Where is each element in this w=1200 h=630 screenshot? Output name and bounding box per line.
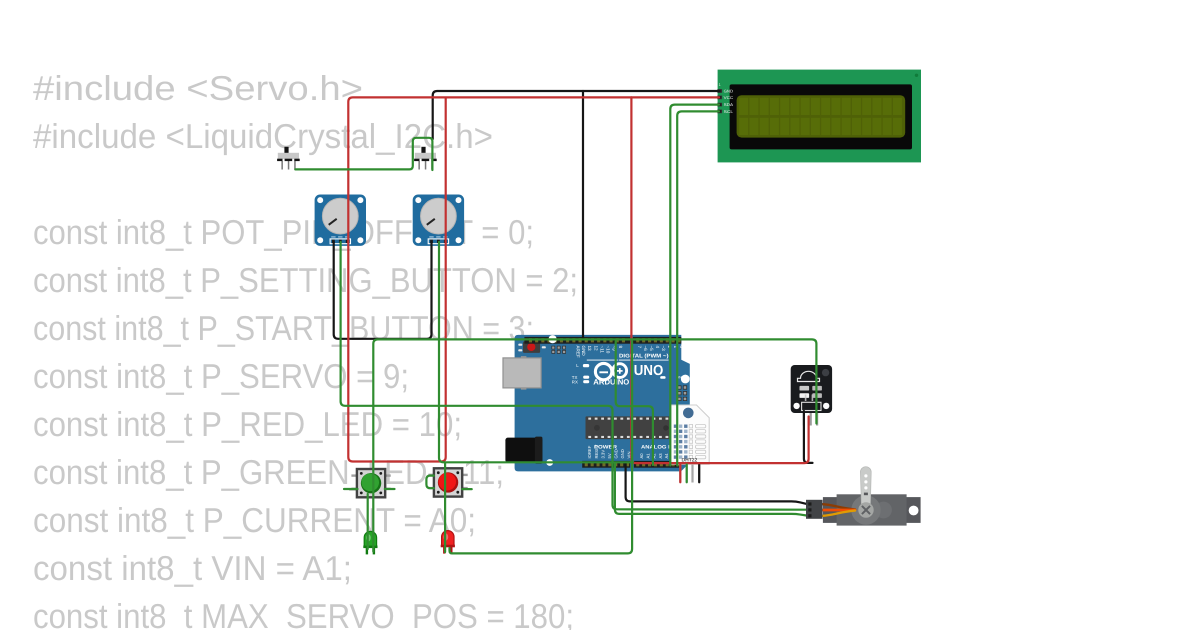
wire: red button to red LED [444, 463, 446, 552]
wire: POT2 signal to A0 [439, 242, 633, 462]
svg-text:SCL: SCL [724, 109, 734, 114]
LCD1602 display module [718, 70, 921, 163]
sensor breakout module [791, 365, 832, 426]
svg-text:A1: A1 [645, 453, 650, 459]
svg-text:~10: ~10 [606, 346, 611, 354]
svg-text:UNO: UNO [634, 363, 664, 379]
power barrel jack [505, 438, 542, 463]
LCD screen [737, 95, 906, 137]
svg-text:const int8_t MAX_SERVO_POS = 1: const int8_t MAX_SERVO_POS = 180; [33, 598, 574, 630]
red LED [441, 531, 455, 554]
servo horn [860, 467, 871, 504]
wire GND: sensor module [804, 411, 813, 463]
green LED [363, 531, 377, 554]
wire: header to servo pin3 [615, 463, 807, 516]
svg-text:12: 12 [593, 346, 598, 352]
svg-text:const int8_t P_START_BUTTON =: const int8_t P_START_BUTTON = 3; [33, 310, 534, 348]
LCD pins GND VCC SDA SCL [718, 83, 734, 114]
ICSP header 2 [678, 386, 687, 401]
svg-text:ARDUINO: ARDUINO [593, 378, 629, 387]
svg-text:A0: A0 [639, 453, 644, 459]
svg-text:VCC: VCC [724, 95, 734, 100]
svg-text:POWER: POWER [594, 445, 617, 451]
svg-text:const int8_t P_RED_LED = 10;: const int8_t P_RED_LED = 10; [33, 406, 462, 444]
svg-text:GND: GND [581, 346, 586, 357]
svg-text:IOREF: IOREF [587, 445, 592, 458]
ICSP header (USB side) [552, 346, 566, 353]
svg-text:SDA: SDA [724, 102, 734, 107]
wire SDA: LCD to A4 [670, 105, 719, 466]
svg-text:3.3V: 3.3V [601, 450, 606, 459]
svg-text:const int8_t P_CURRENT = A0;: const int8_t P_CURRENT = A0; [33, 502, 476, 540]
svg-text:8: 8 [618, 346, 623, 349]
svg-text:#include <Servo.h>: #include <Servo.h> [33, 70, 363, 108]
svg-text:~3: ~3 [661, 346, 666, 352]
red pushbutton [428, 468, 467, 496]
faded background source code [33, 70, 578, 630]
svg-text:~5: ~5 [649, 346, 654, 352]
wire stub: green button right [385, 488, 395, 490]
servo screw [858, 502, 873, 517]
svg-text:4: 4 [655, 346, 660, 349]
potentiometer POT2 [413, 195, 464, 246]
wire GND: LCD to slide switch SW2 [433, 91, 719, 139]
svg-text:A3: A3 [658, 453, 663, 459]
wire SCL: LCD to A5 [677, 111, 719, 465]
wire: POT1 signal to servo row [341, 242, 807, 510]
pot knob [421, 198, 457, 234]
wire: SW1 to SW2 [295, 138, 432, 170]
wire GND: POT1 pin1 to POT2 pin1 [334, 242, 432, 339]
Arduino Uno board [503, 335, 690, 472]
wire GND: Arduino to servo connector [626, 463, 807, 504]
wire stub: red button right [462, 488, 472, 490]
reset button [523, 341, 540, 353]
svg-text:GND: GND [724, 89, 734, 94]
svg-text:A4: A4 [664, 453, 669, 459]
wire stub: green button left [344, 488, 358, 490]
wire VCC: 5V rail to DHT/module [631, 97, 808, 463]
svg-text:RX: RX [572, 380, 578, 385]
potentiometer POT1 [315, 195, 366, 246]
svg-text:DIGITAL (PWM ~): DIGITAL (PWM ~) [619, 354, 669, 360]
svg-text:const int8_t P_SETTING_BUTTON: const int8_t P_SETTING_BUTTON = 2; [33, 262, 578, 300]
slide switch SW1 [277, 147, 300, 170]
wire: module SIG / pin2 / green button / LED [373, 339, 816, 551]
svg-text:7: 7 [637, 346, 642, 349]
svg-text:13: 13 [587, 346, 592, 352]
svg-text:5V: 5V [607, 453, 612, 458]
green pushbutton [351, 469, 390, 497]
servo motor [823, 467, 921, 526]
wire VCC: DHT22 pin1 drop [679, 463, 681, 482]
svg-text:const int8_t VIN = A1;: const int8_t VIN = A1; [33, 550, 352, 588]
servo wire fan [823, 504, 856, 516]
LCD bezel [730, 84, 912, 149]
wire VCC: LCD / POT1 / POT2 loop [348, 97, 719, 461]
svg-text:~11: ~11 [599, 346, 604, 354]
slide switch SW2 [414, 147, 437, 170]
ATmega328 chip [586, 416, 671, 439]
DHT22 sensor [671, 405, 709, 483]
svg-text:1: 1 [719, 83, 721, 87]
USB connector [521, 356, 527, 389]
wire: DHT22 data stub [686, 465, 688, 483]
wire GND: DHT22 pin4 [698, 465, 700, 483]
power/analog pin headers [582, 461, 630, 468]
svg-text:~6: ~6 [643, 346, 648, 352]
wire: red button left loop [426, 476, 434, 489]
wire GND: junction to Arduino GND (top header) [582, 91, 584, 341]
pot knob [322, 198, 358, 234]
Arduino logo [595, 363, 626, 379]
digital pin headers [524, 337, 630, 344]
wire: pin9 loop to analog header [616, 342, 653, 466]
mounting holes [681, 375, 690, 384]
svg-text:AREF: AREF [575, 346, 580, 358]
wire: green button to green LED [367, 494, 369, 549]
svg-text:const int8_t P_SERVO = 9;: const int8_t P_SERVO = 9; [33, 358, 409, 396]
svg-text:GND: GND [620, 449, 625, 458]
svg-text:0: 0 [679, 346, 684, 349]
servo connector [806, 500, 823, 519]
wire: pin8 to red LED cathode [450, 342, 633, 554]
